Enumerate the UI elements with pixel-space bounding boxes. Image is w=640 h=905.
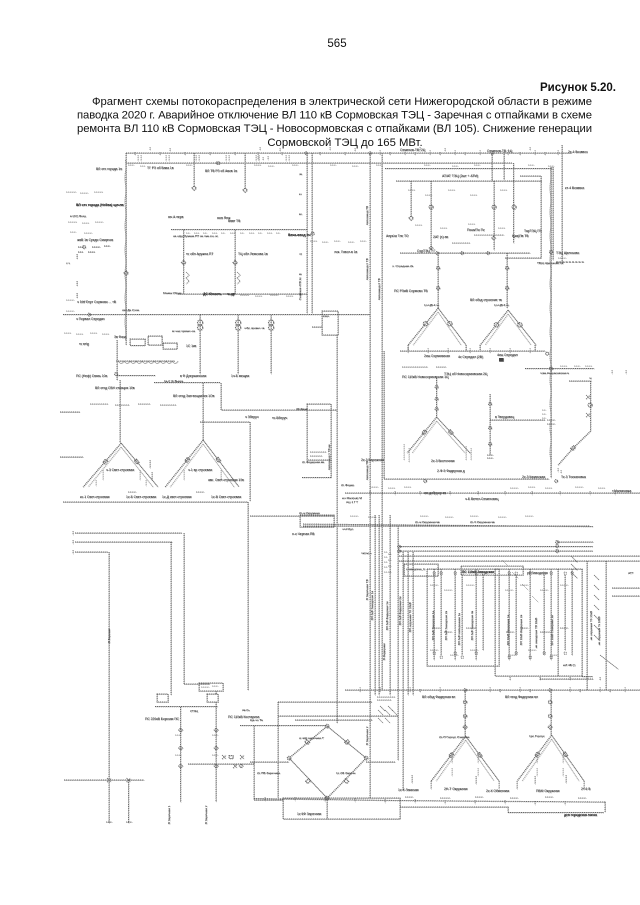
- zigzag x187: [186, 272, 189, 284]
- box cluster above borskaya: [199, 683, 223, 691]
- wire mid bus 410: [222, 409, 337, 411]
- wire bottom bus 799-802: [254, 799, 605, 803]
- node top bus b: [369, 152, 372, 155]
- wire step 605: [604, 802, 606, 813]
- wire v x126 main left: [125, 153, 127, 345]
- svg-text:565: 565: [327, 38, 346, 50]
- wire v x216 cluster: [215, 691, 217, 694]
- box klyuch: [322, 311, 338, 335]
- box zavodskaya 2: [495, 569, 582, 676]
- transformer T5: [431, 736, 499, 781]
- wire v x403: [402, 552, 404, 790]
- marks 166 row: [128, 165, 554, 166]
- wire from diamond right: [366, 761, 395, 763]
- node busB a: [424, 480, 427, 483]
- wire T8 top: [200, 421, 250, 423]
- node breaker x514: [512, 205, 516, 209]
- marks under T6: [517, 775, 584, 789]
- wire 676 ext: [582, 676, 593, 678]
- wire v x370 avtozavod: [369, 153, 371, 798]
- wire v x184: [183, 533, 185, 684]
- transformer T6: [517, 735, 584, 781]
- gamma marks 157: [258, 156, 268, 160]
- node chain T3a: [435, 386, 438, 389]
- transformer T3: [407, 417, 470, 453]
- marks at verticals top: [408, 190, 507, 228]
- tick pairs bus 153 right: [380, 150, 558, 155]
- wire nekrasovskaya: [525, 368, 594, 370]
- node busB b: [555, 480, 558, 483]
- node 557 542: [556, 541, 559, 544]
- box zavodskaya 1: [427, 569, 499, 666]
- svg-text:Сормовской ТЭЦ до 165 МВт.: Сормовской ТЭЦ до 165 МВт.: [267, 137, 422, 149]
- wire left feeder 542: [75, 541, 172, 543]
- wire AT bus: [396, 180, 542, 182]
- wire bottom bus 813: [508, 812, 604, 814]
- wire drop x494: [493, 181, 495, 250]
- ticks bus 153: [135, 152, 545, 155]
- wire v x307: [306, 153, 308, 313]
- ticks bus 493: [370, 491, 615, 495]
- feeder verticals box1: [434, 569, 483, 660]
- zigzag x238: [237, 272, 240, 284]
- node chain T6b: [548, 714, 551, 717]
- marks left 340s: [64, 333, 109, 334]
- wire 716: [278, 715, 398, 717]
- node diamond right: [364, 756, 368, 760]
- cross 128 780: [127, 778, 131, 782]
- node chain T5b: [463, 714, 466, 717]
- node smirnov: [83, 246, 86, 249]
- wire T2 foot drop L: [479, 345, 481, 351]
- node x490c: [489, 443, 492, 446]
- marks 242 row: [310, 241, 366, 242]
- transformer T2 breaker right: [518, 323, 522, 327]
- wire T8 apex riser: [202, 383, 204, 440]
- wire right bus 551: [399, 550, 593, 552]
- wire left feeder 552: [75, 551, 108, 553]
- node chain T2a: [505, 266, 508, 269]
- hatch x574: [571, 556, 577, 578]
- node x216 chain c: [214, 764, 218, 768]
- node x180 chain a: [179, 728, 183, 732]
- wire right bus 542: [557, 541, 593, 543]
- node top bus c: [491, 152, 494, 155]
- breaker diamond UL: [305, 740, 310, 745]
- marks box307: [310, 452, 326, 456]
- wire v x248: [247, 502, 249, 690]
- node diamond left: [287, 756, 291, 760]
- wire v x413: [412, 552, 414, 695]
- wire h 381 right: [569, 380, 592, 382]
- wire drop x504 semenov: [503, 152, 505, 180]
- transformer T7 inner: [88, 447, 153, 487]
- wire v x221: [220, 383, 222, 410]
- wire v x382: [381, 153, 383, 690]
- wire 720: [295, 719, 372, 721]
- wire drop x431: [430, 181, 432, 250]
- node breaker x494: [492, 205, 496, 209]
- transformer T1 inner: [413, 312, 461, 345]
- ticks left edge: [76, 254, 78, 298]
- wire v x606: [605, 561, 607, 690]
- marks x562 bottom: [558, 258, 566, 262]
- wire to diamond top: [240, 725, 327, 727]
- node drop x194: [192, 186, 196, 190]
- node 557 551: [556, 550, 559, 553]
- wire right bus 546: [399, 546, 593, 548]
- wire apex drop T3: [436, 378, 438, 417]
- svg-text:ремонта ВЛ 110 кВ Сормовская Т: ремонта ВЛ 110 кВ Сормовская ТЭЦ - Новос…: [77, 123, 592, 135]
- wire v x591 upper: [590, 381, 592, 431]
- scallop arcs: [118, 361, 178, 363]
- tick marks top bus: [150, 147, 530, 151]
- wire drop x194: [193, 153, 195, 185]
- wire top bus lower: [126, 162, 512, 164]
- node dark 4ssh: [499, 358, 504, 362]
- feeder squares top row: [433, 572, 573, 574]
- wire drop x245: [244, 153, 246, 187]
- wire v x398: [397, 526, 399, 760]
- marks tri T5 inner: [452, 755, 478, 776]
- wire left stub 457: [60, 456, 83, 458]
- wire T1 foot drop R: [465, 345, 467, 351]
- marks T3 feet cols: [404, 444, 471, 462]
- wire third bus 169: [385, 168, 552, 170]
- transformer T1 breaker left: [423, 321, 427, 325]
- marks 517 row: [350, 516, 533, 517]
- tick pairs bus 690: [360, 687, 625, 692]
- node chain T5c: [463, 725, 467, 729]
- wire v x587: [586, 561, 588, 690]
- node x490b: [489, 427, 492, 430]
- transformer T7 breaker right: [134, 459, 139, 464]
- wire 702: [278, 701, 372, 703]
- transformer T1 breaker right: [448, 321, 452, 325]
- wire T1 foot drop L: [407, 345, 409, 351]
- node 116 374: [115, 373, 118, 376]
- wire diamond box left: [277, 702, 279, 798]
- wavy v126: [125, 160, 126, 340]
- wire T2 foot drop R: [534, 345, 536, 351]
- transformer T2: [480, 310, 536, 345]
- marks vlrz: [402, 366, 446, 368]
- header zavodskaya dark: [461, 566, 523, 575]
- wire v x390: [389, 515, 391, 695]
- node bus437: [436, 252, 439, 255]
- breaker diamond LL: [306, 779, 311, 784]
- wire right bus 556: [399, 555, 640, 557]
- node chain T6c: [548, 725, 552, 729]
- ticks bus 800: [265, 797, 565, 805]
- wire 780: [64, 779, 144, 781]
- node chain T6a: [548, 700, 551, 703]
- wire drop x235 in box: [234, 230, 236, 295]
- wire to diamond left: [250, 761, 289, 763]
- end marks bottom left: [106, 821, 132, 823]
- marks 368 row right: [560, 365, 592, 367]
- node 557 546: [556, 545, 559, 548]
- node 550 690: [549, 689, 552, 692]
- box x307 404: [307, 404, 331, 460]
- wire v x120 to T7: [119, 380, 121, 443]
- wire right bus 561: [399, 560, 640, 562]
- breaker diamond LR: [344, 779, 349, 784]
- node end x494: [492, 236, 496, 240]
- wire inner box left: [183, 230, 185, 295]
- marks tri T6 inner: [537, 755, 563, 776]
- marks under T5: [412, 775, 499, 789]
- wire box355 left edge: [383, 351, 385, 479]
- wire borskaya bus: [155, 706, 218, 708]
- wire box355 bottom: [384, 478, 549, 480]
- marks v551 junction: [547, 420, 555, 424]
- boxes cluster 340: [130, 339, 145, 346]
- node bus351 x547: [546, 352, 549, 355]
- marks tri T8 inner drops: [184, 470, 221, 480]
- node diamond top: [325, 724, 329, 728]
- feeder marks row 625: [432, 628, 568, 632]
- wire drop x411: [410, 181, 412, 215]
- wire left stub 410: [60, 411, 80, 413]
- box borskaya 1: [157, 694, 168, 702]
- wire v x553: [552, 167, 554, 260]
- junctions 690: [390, 689, 610, 692]
- marks smirnov: [78, 246, 110, 252]
- transformer T7: [83, 443, 158, 487]
- dash shchelokovo: [556, 261, 584, 263]
- wire 764: [188, 763, 254, 765]
- marks mid 296: [240, 295, 293, 296]
- transformer T8: [165, 440, 239, 487]
- transformer T5 breaker right: [477, 752, 482, 757]
- wire v x171: [170, 542, 172, 695]
- marks tri T7 inner drops: [96, 470, 146, 486]
- transformer T8 inner: [170, 444, 234, 487]
- transformer T6 breaker right: [563, 752, 568, 757]
- node bus488: [487, 252, 490, 255]
- wire drop x200: [199, 315, 201, 375]
- wire v x117: [116, 340, 118, 380]
- wire 679: [540, 678, 593, 680]
- node x180 chain b: [179, 746, 183, 750]
- hatch right col: [594, 575, 599, 640]
- wire apex drop T6: [550, 690, 552, 735]
- node drop x183: [181, 260, 185, 264]
- transformer T1: [408, 308, 466, 345]
- wire v x379: [378, 515, 380, 695]
- wire v x408: [407, 552, 409, 695]
- marks row 797: [405, 797, 586, 798]
- transformer 2w x238: [235, 320, 240, 325]
- wire drop x492 top: [491, 153, 493, 181]
- wire bus under T1 T2: [400, 350, 545, 352]
- transformer T2 inner: [485, 314, 531, 345]
- node on x126: [124, 271, 128, 275]
- wire left bus 375: [117, 375, 155, 377]
- wire sloped bus 524: [303, 524, 593, 527]
- wire right stub 588: [612, 587, 640, 589]
- wire top 110kV bus: [126, 152, 572, 154]
- wire apex drop T2: [506, 253, 508, 308]
- wire bottom bus 807: [400, 806, 508, 808]
- marks top left col rows: [66, 192, 103, 311]
- marks under busB: [370, 487, 605, 488]
- node bus462: [461, 252, 464, 255]
- transformer 2w x271: [268, 320, 273, 325]
- wire step 508: [507, 807, 509, 813]
- wire v x312: [311, 153, 313, 313]
- cross 109 780: [107, 778, 111, 782]
- transformer T3 breaker left: [422, 430, 427, 435]
- wire long bus 493: [345, 492, 640, 494]
- svg-text:Рисунок 5.20.: Рисунок 5.20.: [540, 82, 616, 94]
- dash marks atbox: [452, 235, 504, 243]
- wire apex drop T5: [464, 690, 466, 736]
- node end x431: [429, 246, 433, 250]
- transformer T8 breaker right: [216, 457, 221, 462]
- breaker diag a: [571, 446, 576, 451]
- wire mid bus 526: [303, 525, 590, 527]
- wire v x331 segment: [302, 460, 331, 478]
- svg-text:паводка 2020 г. Аварийное откл: паводка 2020 г. Аварийное отключение ВЛ …: [77, 110, 592, 122]
- mark x490 end: [487, 455, 493, 458]
- feeder squares bottom row: [433, 652, 566, 658]
- feeder verticals box2: [509, 569, 572, 660]
- transformer T8 breaker left: [185, 457, 190, 462]
- wire scallop bus: [116, 360, 175, 362]
- x marks x588: [586, 395, 590, 417]
- breaker diamond UR: [345, 740, 350, 745]
- node x590 405: [588, 403, 592, 407]
- tick pairs bus 351: [408, 348, 530, 353]
- hatch above diamond 2: [378, 710, 397, 723]
- transformer T5 inner: [436, 740, 494, 781]
- marks bottom left verticals: [175, 735, 218, 755]
- wire mid bus 516: [250, 515, 334, 517]
- transformer T5 breaker left: [449, 752, 454, 757]
- node chain T5a: [463, 700, 466, 703]
- node pair 233: [311, 232, 314, 235]
- transformer T3 inner: [412, 421, 465, 453]
- wire wavy x490: [489, 394, 491, 455]
- wire AT box top right: [520, 175, 541, 177]
- wire v x562: [561, 145, 563, 262]
- wire T8 right edge: [249, 422, 251, 501]
- node chain T1a: [436, 266, 439, 269]
- wire v x112: [108, 552, 110, 823]
- node 89 314: [88, 313, 91, 316]
- wire jog: [312, 326, 322, 328]
- marks right edge 370: [612, 370, 626, 374]
- marks zav extra: [430, 585, 568, 655]
- ring diamond: [289, 726, 366, 798]
- node chain T3b: [435, 398, 438, 401]
- node nekr: [549, 367, 552, 370]
- marks 404: [90, 404, 176, 405]
- wire v x180 zarechnaya: [180, 707, 182, 802]
- node 766 d: [239, 764, 243, 768]
- wire drop x238: [237, 315, 239, 375]
- tick pairs top buses: [138, 155, 289, 161]
- node drop x245: [243, 188, 247, 192]
- node 399 546: [398, 545, 401, 548]
- wire right stub 596: [612, 595, 640, 597]
- marks left col: [68, 222, 103, 233]
- svg-text:Фрагмент схемы потокораспредел: Фрагмент схемы потокораспределения в эле…: [92, 96, 592, 108]
- x marks 757: [222, 755, 244, 759]
- cluster above diamond: [377, 697, 395, 711]
- box zavodskaya label: [404, 564, 438, 576]
- wire left bus 502: [63, 501, 248, 503]
- transformer 2w x200: [197, 320, 202, 325]
- node 399 551: [398, 550, 401, 553]
- node drop x235: [233, 260, 237, 264]
- box x300 515: [300, 515, 334, 527]
- junctions 678: [510, 677, 600, 680]
- diag right bottom: [600, 655, 618, 669]
- transformer T6 inner: [522, 739, 579, 781]
- marks 533-552 ends: [72, 531, 74, 554]
- box zarech bottom: [283, 798, 400, 819]
- transformer T2 breaker left: [494, 323, 498, 327]
- wire v x558: [557, 569, 559, 676]
- wire v x551: [550, 167, 552, 478]
- wire drop x514: [513, 163, 515, 243]
- node x216 chain a: [214, 728, 218, 732]
- marks between T7 T8: [128, 460, 204, 492]
- dots row 233: [186, 232, 280, 234]
- wire Sormovo bus: [400, 252, 530, 254]
- box borskaya 2: [207, 694, 218, 702]
- node shchelokovo: [549, 250, 552, 253]
- dots diag end: [558, 468, 561, 473]
- wire jog x490: [490, 419, 545, 421]
- wire bus 690: [345, 689, 640, 691]
- wire v x254 diamond outer: [253, 726, 255, 801]
- transformer T7 breaker left: [103, 459, 108, 464]
- diag hatch mid: [502, 560, 538, 602]
- wire apex drop T1: [437, 253, 439, 308]
- wire jog 684: [184, 683, 210, 685]
- x marks 766b: [233, 764, 237, 768]
- node 465 690: [464, 689, 467, 692]
- wire drop x271: [270, 315, 272, 375]
- wire v x216 zarechnaya: [215, 702, 217, 802]
- node x411: [409, 216, 413, 220]
- wire left bus 383: [154, 382, 220, 384]
- wire diamond bottom drop: [326, 798, 328, 819]
- transformer T6 breaker left: [535, 752, 540, 757]
- breaker on bus163: [216, 162, 219, 164]
- wire v x375: [374, 515, 376, 695]
- node x490a: [489, 403, 492, 406]
- wire v x337: [336, 335, 338, 723]
- wire left long bus: [63, 314, 370, 316]
- node chain T3c: [435, 408, 438, 411]
- wire 800 stub: [254, 799, 283, 801]
- node diamond bottom: [325, 796, 329, 800]
- node x180 chain c: [179, 764, 183, 768]
- wavy v549: [550, 170, 551, 470]
- wire inner box bottom: [178, 293, 307, 295]
- transformer T3 breaker right: [448, 430, 453, 435]
- node breaker x431: [429, 205, 433, 209]
- node x216 chain b: [214, 746, 218, 750]
- wire diag x591: [558, 431, 591, 465]
- dash col bundle: [384, 552, 391, 572]
- node chain T1b: [436, 286, 439, 289]
